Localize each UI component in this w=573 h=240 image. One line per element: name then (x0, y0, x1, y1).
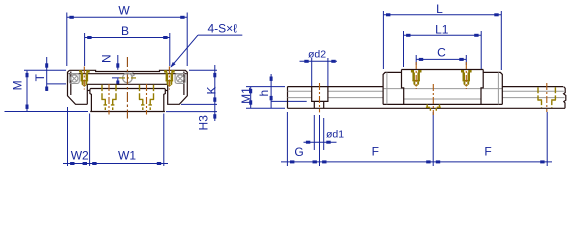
dimension W2 W1 extension lines (68, 107, 164, 166)
dimension L extension lines (383, 11, 501, 70)
T arrows outside (45, 63, 48, 67)
dimension M1 extensions (246, 87, 285, 109)
rail top visible segments (288, 86, 564, 88)
svg-text:G: G (294, 145, 303, 159)
L1 arrows (406, 34, 410, 37)
G arrows (290, 160, 294, 163)
dimension W extension lines (67, 13, 187, 67)
svg-text:h: h (257, 90, 271, 97)
dimension N line (112, 55, 122, 85)
dimension labels left view (10, 3, 237, 162)
block bottom (383, 103, 502, 105)
first rail counterbore hole (solid) (312, 87, 328, 109)
rail cross-section outline (90, 89, 165, 112)
svg-text:T: T (33, 73, 47, 81)
N arrows (116, 63, 119, 67)
C arrows (419, 58, 423, 61)
bottom extension lines right view (287, 112, 547, 166)
first hole centerline (319, 83, 321, 112)
dimension L1 line (404, 34, 482, 36)
dimension labels right view (239, 2, 492, 159)
dimension G F F line (281, 161, 552, 163)
dimension d2 extension lines (312, 58, 328, 86)
block cavity ceiling line (87, 83, 167, 85)
F2 arrows (436, 160, 440, 163)
block screw centerline right (465, 62, 467, 89)
dimension d1 extension lines (314, 115, 323, 150)
rail left end (287, 87, 289, 109)
rail mounting hole left (hidden, counterbore) (101, 85, 116, 110)
body top (402, 69, 484, 71)
block screw hole left (side view) (411, 70, 422, 87)
dimension K H3 line (214, 65, 216, 121)
dimension h line (270, 74, 272, 108)
leader 4-Sxl (171, 35, 242, 67)
M arrows (26, 73, 29, 77)
grease nipple circle (123, 72, 135, 83)
svg-text:W1: W1 (118, 149, 136, 163)
dimension C extension lines (416, 55, 466, 65)
rail bottom (288, 107, 566, 109)
svg-text:W2: W2 (71, 149, 89, 163)
dimension T extension lower (47, 83, 66, 85)
svg-text:L: L (436, 2, 443, 16)
svg-text:L1: L1 (435, 23, 449, 37)
hidden rail hole under block (426, 104, 441, 110)
block outline (cross-section) (68, 70, 188, 104)
block side view outline (383, 70, 502, 105)
K arrows (213, 73, 216, 77)
dimension B extension lines (85, 33, 170, 66)
M1 arrows (249, 89, 252, 93)
screw hole centerline left (83, 67, 85, 90)
dimension B line (85, 37, 170, 39)
dimension L1 extension lines (404, 31, 482, 70)
screw thread hole left (4-Sxl) (79, 70, 90, 87)
dimension T line (46, 57, 48, 91)
blue arrowheads right view (249, 13, 544, 163)
left end cap (383, 70, 404, 105)
rail mounting hole right (hidden, counterbore) (139, 85, 154, 110)
right end cap (481, 70, 502, 105)
svg-text:F: F (484, 145, 491, 159)
svg-text:4-S×ℓ: 4-S×ℓ (208, 22, 238, 36)
rail side view outline (288, 87, 566, 109)
rail hole centerline left (108, 84, 110, 115)
centerlines left view (84, 57, 169, 119)
dimension M line (26, 71, 28, 112)
middle hole centerline (432, 84, 434, 115)
h arrows (270, 77, 273, 81)
right hole centerline (546, 83, 548, 112)
block inner side lines (71, 72, 184, 96)
W arrows (69, 16, 73, 19)
svg-text:C: C (437, 46, 446, 60)
hole center extension (319, 115, 321, 166)
centerlines right view (320, 62, 547, 115)
svg-text:B: B (121, 24, 129, 38)
svg-text:ød1: ød1 (326, 129, 344, 141)
end seal lines (gray) (387, 72, 499, 104)
svg-text:N: N (99, 54, 113, 63)
svg-text:M: M (10, 80, 24, 90)
d2 arrows outside (304, 60, 308, 63)
W1 arrows (92, 162, 96, 165)
blue arrowheads (filled blobs) left view (26, 16, 217, 165)
rail hole centerline right (146, 84, 148, 115)
block inner top line (69, 73, 187, 75)
hidden rail hole right (dashed) (537, 87, 556, 108)
d1 arrows outside (306, 141, 310, 144)
dimension L line (383, 14, 501, 16)
B arrows (87, 36, 91, 39)
H3 arrows outside (213, 114, 216, 118)
svg-text:ød2: ød2 (308, 49, 326, 61)
bolt symbol square right (175, 74, 185, 84)
screw hole centerline right (168, 67, 170, 90)
L arrows (386, 13, 390, 16)
dimension W line (67, 16, 187, 18)
dimension d1 line (304, 141, 337, 143)
svg-text:W: W (118, 3, 130, 17)
rail lines hidden behind block (gray) (384, 88, 502, 90)
W2 arrows (70, 162, 74, 165)
dimension h extension lower (271, 100, 307, 102)
svg-text:M1: M1 (239, 87, 253, 104)
4-Sxl leader arrowhead (170, 62, 175, 68)
right side extension lines of left view (166, 70, 217, 111)
svg-text:H3: H3 (196, 115, 210, 131)
dimension C line (416, 58, 466, 60)
dimension M extension top (24, 69, 66, 71)
rail bottom extension line left (5, 111, 89, 113)
rail groove lines (gray) (288, 89, 565, 99)
svg-text:F: F (372, 145, 379, 159)
bolt symbol square left (69, 74, 79, 84)
svg-text:K: K (205, 86, 219, 94)
rail right broken end (564, 87, 566, 109)
grease hole horizontal centerline (119, 77, 136, 79)
screw thread hole right (4-Sxl) (164, 70, 175, 87)
block screw hole right (side view) (461, 70, 472, 87)
dimension d2 line (300, 60, 338, 62)
dimension M1 line (250, 87, 252, 109)
dimension W2 W1 line (63, 163, 168, 165)
F1 arrows (322, 160, 326, 163)
block screw centerline left (415, 62, 417, 89)
main vertical centerline (126, 57, 128, 119)
